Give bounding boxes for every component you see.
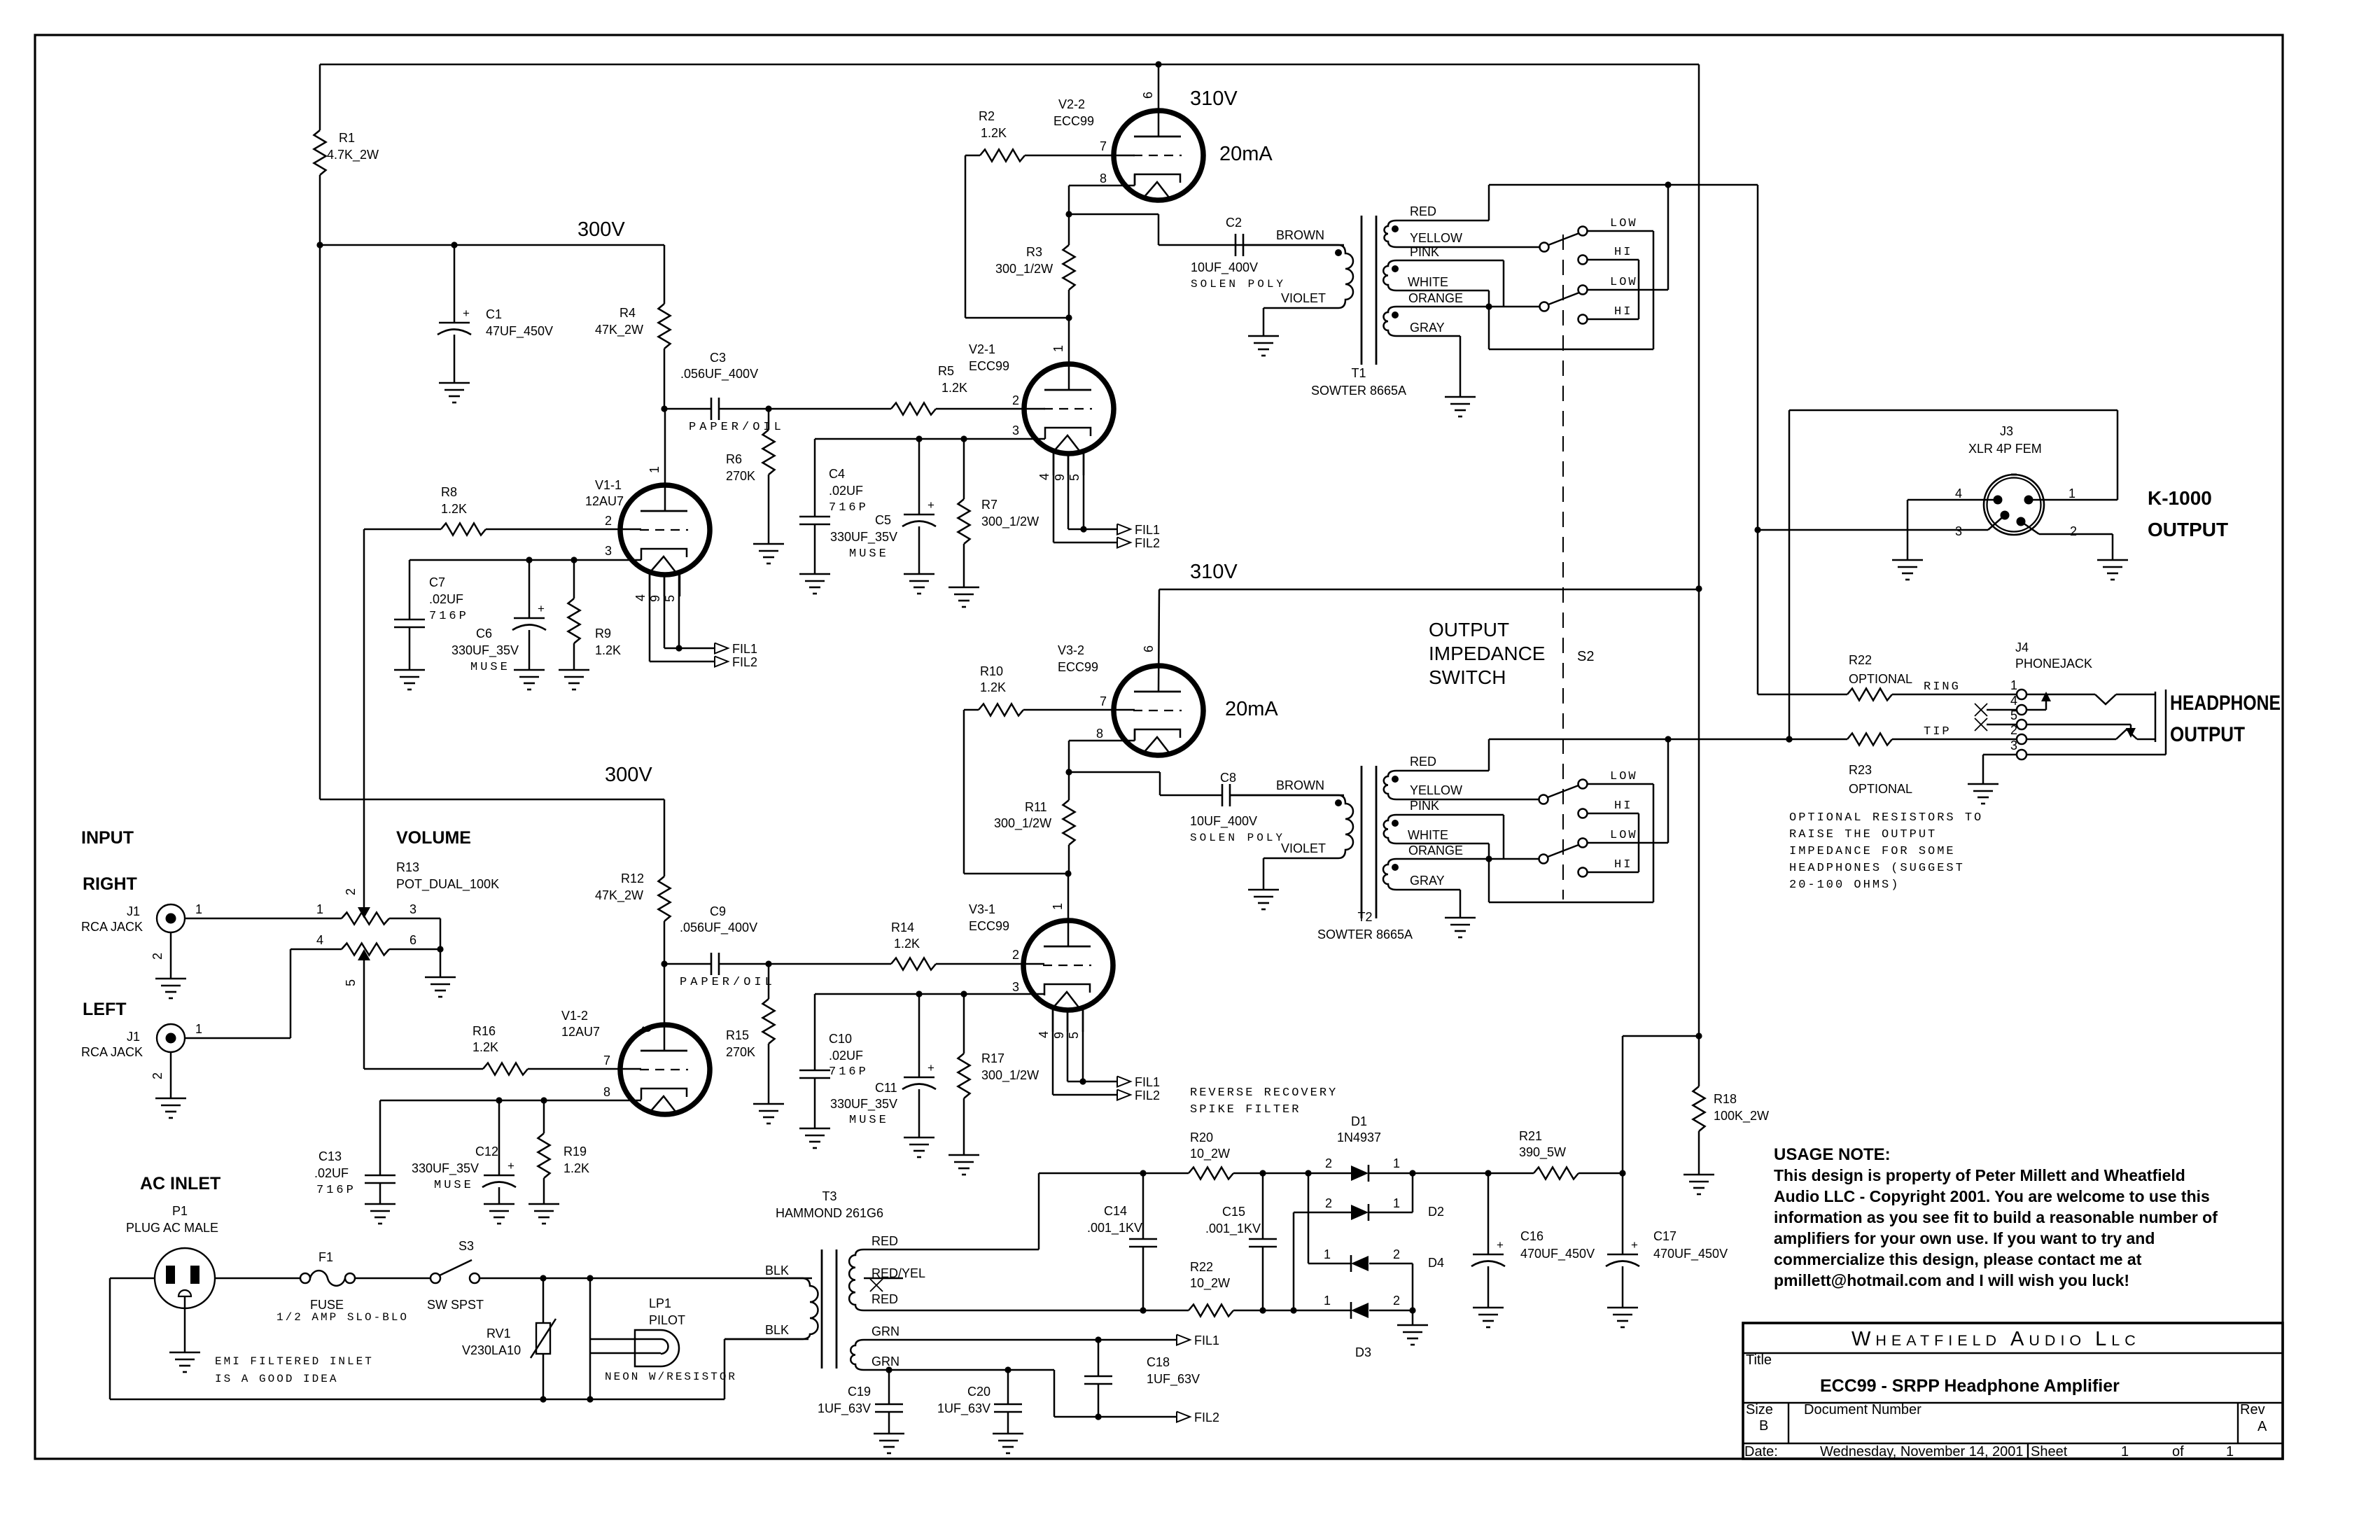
svg-text:BLK: BLK xyxy=(765,1323,789,1337)
svg-text:HAMMOND 261G6: HAMMOND 261G6 xyxy=(776,1206,883,1220)
svg-text:MUSE: MUSE xyxy=(470,661,510,674)
svg-text:C16: C16 xyxy=(1520,1229,1543,1243)
svg-text:8: 8 xyxy=(603,1085,610,1099)
svg-text:1UF_63V: 1UF_63V xyxy=(1147,1372,1200,1387)
svg-text:ECC99: ECC99 xyxy=(1053,114,1094,128)
svg-text:4: 4 xyxy=(316,933,323,947)
svg-text:LOW: LOW xyxy=(1610,770,1638,783)
svg-text:1: 1 xyxy=(1051,903,1065,910)
svg-text:.056UF_400V: .056UF_400V xyxy=(680,367,758,381)
svg-text:5: 5 xyxy=(1067,474,1081,481)
svg-text:YELLOW: YELLOW xyxy=(1410,231,1462,245)
svg-text:YELLOW: YELLOW xyxy=(1410,783,1462,797)
svg-text:HI: HI xyxy=(1614,246,1632,259)
svg-text:12AU7: 12AU7 xyxy=(585,494,624,508)
svg-text:1.2K: 1.2K xyxy=(941,381,967,395)
svg-text:+: + xyxy=(927,498,934,512)
svg-text:IMPEDANCE FOR SOME: IMPEDANCE FOR SOME xyxy=(1789,845,1956,858)
svg-text:R13: R13 xyxy=(396,860,419,874)
svg-text:OUTPUT: OUTPUT xyxy=(2170,723,2245,746)
svg-text:1.2K: 1.2K xyxy=(980,680,1006,694)
svg-text:K-1000: K-1000 xyxy=(2148,487,2212,509)
svg-text:pmillett@hotmail.com and I wil: pmillett@hotmail.com and I will wish you… xyxy=(1774,1271,2129,1289)
svg-text:.056UF_400V: .056UF_400V xyxy=(680,920,757,935)
svg-text:SW SPST: SW SPST xyxy=(427,1298,484,1312)
svg-text:+: + xyxy=(463,307,470,320)
svg-text:FIL2: FIL2 xyxy=(732,655,757,669)
svg-text:This design is property of Pet: This design is property of Peter Millett… xyxy=(1774,1166,2185,1184)
svg-text:LOW: LOW xyxy=(1610,217,1638,230)
svg-text:1: 1 xyxy=(195,902,202,916)
svg-text:PLUG AC MALE: PLUG AC MALE xyxy=(126,1221,218,1235)
svg-text:FIL2: FIL2 xyxy=(1135,536,1160,550)
svg-text:716P: 716P xyxy=(429,610,469,623)
svg-text:C19: C19 xyxy=(848,1385,871,1399)
svg-text:270K: 270K xyxy=(726,1045,755,1059)
svg-text:BLK: BLK xyxy=(765,1263,789,1277)
svg-text:2: 2 xyxy=(1393,1247,1400,1261)
svg-text:+: + xyxy=(1631,1238,1638,1252)
svg-text:.001_1KV: .001_1KV xyxy=(1205,1221,1261,1236)
svg-text:R10: R10 xyxy=(980,664,1003,678)
svg-text:330UF_35V: 330UF_35V xyxy=(412,1161,479,1176)
svg-text:Sheet: Sheet xyxy=(2031,1444,2068,1459)
svg-text:R1: R1 xyxy=(339,131,355,145)
svg-text:P1: P1 xyxy=(172,1204,188,1218)
svg-text:3: 3 xyxy=(1012,980,1019,994)
svg-text:FIL1: FIL1 xyxy=(1135,523,1160,537)
svg-text:R18: R18 xyxy=(1714,1092,1737,1106)
svg-text:ECC99: ECC99 xyxy=(969,919,1009,933)
svg-text:BROWN: BROWN xyxy=(1276,778,1324,792)
svg-text:20mA: 20mA xyxy=(1219,143,1273,165)
svg-text:VOLUME: VOLUME xyxy=(396,828,471,848)
svg-text:RIGHT: RIGHT xyxy=(83,874,137,894)
svg-text:1.2K: 1.2K xyxy=(894,937,920,951)
svg-text:LEFT: LEFT xyxy=(83,1000,127,1019)
svg-text:1/2 AMP SLO-BLO: 1/2 AMP SLO-BLO xyxy=(276,1311,409,1324)
svg-text:C6: C6 xyxy=(476,626,492,640)
svg-text:INPUT: INPUT xyxy=(81,828,134,848)
svg-text:10UF_400V: 10UF_400V xyxy=(1191,260,1258,275)
svg-text:.001_1KV: .001_1KV xyxy=(1087,1221,1142,1235)
svg-text:.02UF: .02UF xyxy=(829,484,863,498)
svg-text:2: 2 xyxy=(1325,1196,1332,1210)
svg-text:HI: HI xyxy=(1614,858,1632,871)
svg-text:C2: C2 xyxy=(1226,216,1242,230)
svg-text:T3: T3 xyxy=(822,1189,836,1203)
svg-text:C7: C7 xyxy=(429,575,445,589)
svg-text:12AU7: 12AU7 xyxy=(561,1025,600,1039)
svg-text:300_1/2W: 300_1/2W xyxy=(994,816,1051,831)
svg-text:ECC99 - SRPP Headphone Amplifi: ECC99 - SRPP Headphone Amplifier xyxy=(1820,1376,2120,1396)
svg-text:R19: R19 xyxy=(563,1144,587,1158)
svg-text:VIOLET: VIOLET xyxy=(1281,291,1326,305)
svg-text:2: 2 xyxy=(1393,1294,1400,1308)
svg-text:R17: R17 xyxy=(981,1051,1004,1065)
svg-text:A: A xyxy=(2257,1419,2267,1434)
svg-text:Size: Size xyxy=(1746,1402,1773,1417)
svg-text:IMPEDANCE: IMPEDANCE xyxy=(1429,643,1545,664)
svg-text:V2-1: V2-1 xyxy=(969,342,995,356)
svg-text:GRN: GRN xyxy=(871,1324,899,1338)
svg-text:of: of xyxy=(2172,1444,2184,1459)
svg-text:2: 2 xyxy=(150,953,164,960)
svg-text:1.2K: 1.2K xyxy=(441,502,467,516)
svg-text:4: 4 xyxy=(2010,694,2017,708)
svg-text:1: 1 xyxy=(1324,1294,1331,1308)
svg-text:1.2K: 1.2K xyxy=(563,1161,589,1175)
svg-text:3: 3 xyxy=(1012,423,1019,437)
svg-text:2: 2 xyxy=(150,1072,164,1079)
svg-text:RED: RED xyxy=(1410,755,1436,769)
svg-text:OPTIONAL RESISTORS TO: OPTIONAL RESISTORS TO xyxy=(1789,811,1983,825)
svg-text:2: 2 xyxy=(1325,1156,1332,1170)
svg-text:T1: T1 xyxy=(1351,366,1366,380)
svg-text:S3: S3 xyxy=(458,1239,474,1253)
svg-text:OPTIONAL: OPTIONAL xyxy=(1849,782,1912,796)
svg-text:R12: R12 xyxy=(621,871,644,885)
svg-text:ECC99: ECC99 xyxy=(1058,660,1098,674)
svg-text:R15: R15 xyxy=(726,1028,749,1042)
svg-text:V3-1: V3-1 xyxy=(969,902,995,916)
svg-text:REVERSE RECOVERY: REVERSE RECOVERY xyxy=(1190,1086,1338,1100)
svg-text:2: 2 xyxy=(1012,393,1019,407)
svg-text:RING: RING xyxy=(1924,680,1961,694)
svg-text:V3-2: V3-2 xyxy=(1058,643,1084,657)
svg-text:ORANGE: ORANGE xyxy=(1408,291,1463,305)
svg-text:C14: C14 xyxy=(1104,1204,1127,1218)
svg-text:6: 6 xyxy=(409,933,416,947)
svg-text:47K_2W: 47K_2W xyxy=(595,323,643,337)
svg-text:1: 1 xyxy=(2068,486,2075,500)
svg-text:J1: J1 xyxy=(127,904,140,918)
svg-text:C18: C18 xyxy=(1147,1355,1170,1369)
svg-text:J1: J1 xyxy=(127,1030,140,1044)
svg-text:R22: R22 xyxy=(1190,1260,1213,1274)
svg-text:+: + xyxy=(1497,1238,1504,1252)
svg-text:300V: 300V xyxy=(577,218,625,241)
svg-text:4.7K_2W: 4.7K_2W xyxy=(327,148,379,162)
svg-text:3: 3 xyxy=(409,902,416,916)
svg-text:300V: 300V xyxy=(605,764,652,786)
svg-text:C8: C8 xyxy=(1220,771,1236,785)
svg-text:RED: RED xyxy=(871,1234,898,1248)
svg-text:LOW: LOW xyxy=(1610,276,1638,289)
svg-text:RCA JACK: RCA JACK xyxy=(81,920,143,934)
svg-text:R3: R3 xyxy=(1026,245,1042,259)
svg-text:OUTPUT: OUTPUT xyxy=(1429,619,1509,640)
svg-text:716P: 716P xyxy=(829,1065,869,1079)
svg-text:T2: T2 xyxy=(1357,910,1372,924)
svg-text:4: 4 xyxy=(1955,486,1962,500)
svg-text:3: 3 xyxy=(1955,524,1962,538)
svg-text:390_5W: 390_5W xyxy=(1519,1145,1566,1160)
svg-text:7: 7 xyxy=(1100,694,1107,708)
svg-text:C12: C12 xyxy=(475,1144,498,1158)
svg-text:HI: HI xyxy=(1614,305,1632,318)
svg-text:100K_2W: 100K_2W xyxy=(1714,1109,1769,1123)
svg-text:HI: HI xyxy=(1614,799,1632,813)
svg-text:310V: 310V xyxy=(1190,87,1238,110)
svg-text:1: 1 xyxy=(647,466,661,473)
svg-text:Wednesday, November 14, 2001: Wednesday, November 14, 2001 xyxy=(1820,1444,2024,1459)
svg-text:1UF_63V: 1UF_63V xyxy=(937,1401,990,1416)
svg-text:FIL1: FIL1 xyxy=(732,642,757,656)
svg-text:C10: C10 xyxy=(829,1032,852,1046)
svg-text:20-100 OHMS): 20-100 OHMS) xyxy=(1789,878,1900,892)
svg-text:information as you see fit to: information as you see fit to build a re… xyxy=(1774,1208,2218,1226)
svg-text:4: 4 xyxy=(633,594,647,601)
svg-text:J3: J3 xyxy=(2000,424,2013,438)
svg-text:HEADPHONE: HEADPHONE xyxy=(2170,692,2281,715)
svg-text:LOW: LOW xyxy=(1610,829,1638,842)
svg-text:GRAY: GRAY xyxy=(1410,321,1445,335)
svg-text:R23: R23 xyxy=(1849,763,1872,777)
svg-text:5: 5 xyxy=(344,979,358,986)
svg-text:J4: J4 xyxy=(2015,640,2029,654)
svg-text:FIL1: FIL1 xyxy=(1135,1075,1160,1089)
svg-text:V230LA10: V230LA10 xyxy=(462,1343,521,1357)
svg-text:.02UF: .02UF xyxy=(314,1166,349,1180)
svg-text:USAGE NOTE:: USAGE NOTE: xyxy=(1774,1145,1891,1164)
svg-text:1.2K: 1.2K xyxy=(595,643,621,657)
svg-text:ECC99: ECC99 xyxy=(969,359,1009,373)
svg-text:R16: R16 xyxy=(472,1024,496,1038)
svg-text:C17: C17 xyxy=(1653,1229,1676,1243)
svg-text:Audio LLC - Copyright 2001. Y: Audio LLC - Copyright 2001. You are welc… xyxy=(1774,1187,2210,1205)
svg-text:R2: R2 xyxy=(979,109,995,123)
svg-text:+: + xyxy=(927,1061,934,1074)
svg-text:PINK: PINK xyxy=(1410,799,1439,813)
svg-text:10_2W: 10_2W xyxy=(1190,1276,1230,1291)
svg-text:R20: R20 xyxy=(1190,1130,1213,1144)
svg-text:1UF_63V: 1UF_63V xyxy=(818,1401,871,1416)
svg-text:BROWN: BROWN xyxy=(1276,228,1324,242)
svg-text:1.2K: 1.2K xyxy=(472,1040,498,1054)
svg-text:470UF_450V: 470UF_450V xyxy=(1653,1247,1728,1261)
svg-text:V1-2: V1-2 xyxy=(561,1009,588,1023)
svg-text:MUSE: MUSE xyxy=(849,1114,889,1127)
svg-text:10UF_400V: 10UF_400V xyxy=(1190,814,1257,829)
svg-text:R8: R8 xyxy=(441,485,457,499)
svg-text:SOLEN POLY: SOLEN POLY xyxy=(1191,278,1286,290)
svg-text:R11: R11 xyxy=(1025,800,1047,814)
svg-text:6: 6 xyxy=(640,1025,654,1032)
svg-text:8: 8 xyxy=(1096,727,1103,741)
svg-text:716P: 716P xyxy=(316,1184,356,1197)
svg-text:IS A GOOD IDEA: IS A GOOD IDEA xyxy=(215,1373,338,1385)
svg-text:D3: D3 xyxy=(1355,1345,1371,1359)
svg-text:10_2W: 10_2W xyxy=(1190,1147,1230,1161)
svg-text:300_1/2W: 300_1/2W xyxy=(981,514,1039,529)
svg-text:330UF_35V: 330UF_35V xyxy=(830,530,897,545)
svg-text:1: 1 xyxy=(195,1022,202,1036)
svg-text:1.2K: 1.2K xyxy=(981,126,1007,140)
svg-text:GRAY: GRAY xyxy=(1410,874,1445,888)
svg-text:1: 1 xyxy=(1393,1196,1400,1210)
svg-text:Date:: Date: xyxy=(1744,1444,1778,1459)
svg-text:S2: S2 xyxy=(1577,649,1594,664)
svg-text:D2: D2 xyxy=(1428,1205,1444,1219)
svg-text:SOLEN POLY: SOLEN POLY xyxy=(1190,832,1285,844)
svg-text:4: 4 xyxy=(1037,473,1051,480)
svg-text:FIL2: FIL2 xyxy=(1194,1410,1219,1424)
svg-text:R7: R7 xyxy=(981,498,997,512)
svg-text:+: + xyxy=(507,1159,514,1172)
svg-text:.02UF: .02UF xyxy=(429,592,463,606)
svg-text:Title: Title xyxy=(1746,1352,1772,1368)
svg-text:Document Number: Document Number xyxy=(1804,1402,1921,1417)
svg-text:6: 6 xyxy=(1141,92,1155,99)
svg-text:1: 1 xyxy=(1324,1247,1331,1261)
svg-text:F1: F1 xyxy=(318,1250,333,1264)
svg-text:1: 1 xyxy=(1051,345,1065,352)
svg-text:SPIKE FILTER: SPIKE FILTER xyxy=(1190,1103,1301,1116)
svg-text:1: 1 xyxy=(1393,1156,1400,1170)
svg-text:OPTIONAL: OPTIONAL xyxy=(1849,672,1912,686)
svg-text:1: 1 xyxy=(2121,1444,2129,1459)
svg-text:9: 9 xyxy=(1053,474,1067,481)
svg-text:GRN: GRN xyxy=(871,1354,899,1368)
svg-text:330UF_35V: 330UF_35V xyxy=(451,643,519,658)
svg-text:VIOLET: VIOLET xyxy=(1281,841,1326,855)
svg-text:FIL1: FIL1 xyxy=(1194,1333,1219,1347)
svg-text:RCA JACK: RCA JACK xyxy=(81,1045,143,1059)
svg-text:PILOT: PILOT xyxy=(649,1313,685,1327)
svg-text:NEON W/RESISTOR: NEON W/RESISTOR xyxy=(605,1371,737,1383)
svg-text:C15: C15 xyxy=(1222,1205,1245,1219)
svg-text:C13: C13 xyxy=(318,1149,342,1163)
svg-text:4: 4 xyxy=(1037,1031,1051,1038)
svg-text:C3: C3 xyxy=(710,351,726,365)
svg-text:C1: C1 xyxy=(486,307,502,321)
svg-text:V1-1: V1-1 xyxy=(595,478,622,492)
svg-text:8: 8 xyxy=(1100,171,1107,185)
svg-text:FUSE: FUSE xyxy=(310,1298,344,1312)
svg-text:PAPER/OIL: PAPER/OIL xyxy=(689,421,785,434)
svg-text:R4: R4 xyxy=(619,306,636,320)
svg-text:+: + xyxy=(538,602,545,615)
svg-text:7: 7 xyxy=(1100,139,1107,153)
svg-text:C11: C11 xyxy=(875,1081,897,1095)
svg-text:C4: C4 xyxy=(829,467,845,481)
svg-text:RV1: RV1 xyxy=(486,1326,511,1340)
svg-text:MUSE: MUSE xyxy=(434,1179,474,1192)
svg-text:2: 2 xyxy=(1012,948,1019,962)
svg-text:1: 1 xyxy=(2226,1444,2234,1459)
svg-text:R14: R14 xyxy=(891,920,914,934)
svg-text:1N4937: 1N4937 xyxy=(1337,1130,1381,1144)
svg-text:EMI FILTERED INLET: EMI FILTERED INLET xyxy=(215,1355,374,1368)
svg-text:C9: C9 xyxy=(710,904,726,918)
svg-text:Rev: Rev xyxy=(2240,1402,2265,1417)
svg-text:C20: C20 xyxy=(967,1385,990,1399)
svg-text:5: 5 xyxy=(1067,1032,1081,1039)
svg-text:B: B xyxy=(1759,1418,1768,1434)
svg-text:FIL2: FIL2 xyxy=(1135,1088,1160,1102)
svg-text:470UF_450V: 470UF_450V xyxy=(1520,1247,1595,1261)
svg-text:R22: R22 xyxy=(1849,653,1872,667)
svg-text:9: 9 xyxy=(1052,1032,1066,1039)
svg-text:310V: 310V xyxy=(1190,561,1238,583)
svg-text:LP1: LP1 xyxy=(649,1296,671,1310)
svg-text:330UF_35V: 330UF_35V xyxy=(830,1097,897,1112)
svg-text:3: 3 xyxy=(2010,738,2017,752)
svg-text:2: 2 xyxy=(2070,524,2077,538)
svg-text:47K_2W: 47K_2W xyxy=(595,888,643,903)
svg-text:RED: RED xyxy=(871,1292,898,1306)
svg-text:1: 1 xyxy=(2010,678,2017,692)
svg-text:3: 3 xyxy=(605,544,612,558)
svg-text:2: 2 xyxy=(344,888,358,895)
svg-text:R21: R21 xyxy=(1519,1129,1542,1143)
svg-text:OUTPUT: OUTPUT xyxy=(2148,519,2228,540)
svg-text:D1: D1 xyxy=(1351,1114,1367,1128)
svg-text:SOWTER 8665A: SOWTER 8665A xyxy=(1317,927,1413,941)
svg-text:20mA: 20mA xyxy=(1225,698,1278,720)
svg-text:WHITE: WHITE xyxy=(1408,275,1448,289)
svg-text:PAPER/OIL: PAPER/OIL xyxy=(680,976,776,989)
svg-text:amplifiers for your own use.: amplifiers for your own use. If you want… xyxy=(1774,1229,2155,1247)
svg-text:AC INLET: AC INLET xyxy=(140,1174,220,1193)
svg-text:6: 6 xyxy=(1142,645,1156,652)
svg-text:300_1/2W: 300_1/2W xyxy=(995,262,1053,276)
svg-text:D4: D4 xyxy=(1428,1256,1444,1270)
svg-text:XLR 4P FEM: XLR 4P FEM xyxy=(1968,442,2042,456)
svg-text:PHONEJACK: PHONEJACK xyxy=(2015,657,2092,671)
svg-text:R9: R9 xyxy=(595,626,611,640)
svg-text:R5: R5 xyxy=(938,364,954,378)
svg-text:HEADPHONES (SUGGEST: HEADPHONES (SUGGEST xyxy=(1789,862,1965,875)
svg-text:V2-2: V2-2 xyxy=(1058,97,1085,111)
svg-text:MUSE: MUSE xyxy=(849,547,889,561)
svg-text:WHITE: WHITE xyxy=(1408,828,1448,842)
svg-text:RED: RED xyxy=(1410,204,1436,218)
svg-text:716P: 716P xyxy=(829,501,869,514)
svg-text:TIP: TIP xyxy=(1924,725,1952,738)
svg-text:ORANGE: ORANGE xyxy=(1408,843,1463,857)
svg-text:RAISE THE OUTPUT: RAISE THE OUTPUT xyxy=(1789,828,1937,841)
svg-text:commercialize this design, ple: commercialize this design, please contac… xyxy=(1774,1250,2142,1268)
svg-text:2: 2 xyxy=(605,514,612,528)
svg-text:C5: C5 xyxy=(875,513,891,527)
svg-text:47UF_450V: 47UF_450V xyxy=(486,324,553,339)
svg-text:POT_DUAL_100K: POT_DUAL_100K xyxy=(396,877,499,892)
svg-text:SWITCH: SWITCH xyxy=(1429,666,1506,688)
svg-text:1: 1 xyxy=(316,902,323,916)
svg-text:300_1/2W: 300_1/2W xyxy=(981,1068,1039,1083)
svg-text:SOWTER 8665A: SOWTER 8665A xyxy=(1311,384,1406,398)
svg-text:.02UF: .02UF xyxy=(829,1049,863,1063)
svg-text:7: 7 xyxy=(603,1053,610,1067)
svg-text:270K: 270K xyxy=(726,469,755,483)
svg-text:R6: R6 xyxy=(726,452,742,466)
